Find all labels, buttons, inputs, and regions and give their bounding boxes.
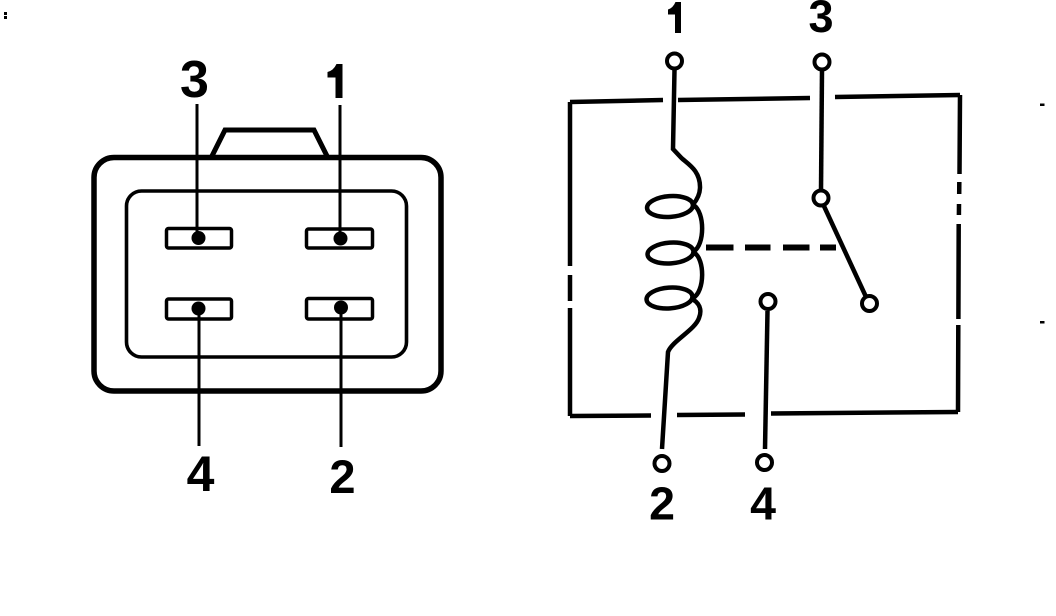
stray scan speck upper-left a [4,12,7,15]
stray scan dash right edge upper [1040,104,1045,107]
pin contact dot 4 [192,302,206,316]
wire leader pin 4 [198,308,201,446]
pin cavity 1 (top-right) [307,229,373,248]
svg-text:3: 3 [808,0,833,42]
terminal 3 circle [815,55,830,70]
wire leader pin 3 [196,104,199,238]
connector outer shell [94,158,441,392]
coil loop 2 [647,241,694,265]
svg-text:4: 4 [187,446,215,502]
dashed actuation line coil to switch arm [706,245,836,251]
relay box bottom edge [570,412,958,416]
terminal 1 circle [667,54,682,69]
wire terminal 4 [765,311,768,449]
pin cavity 4 (bottom-left) [167,299,232,319]
terminal 4 circle [757,455,772,470]
pin contact dot 2 [334,301,348,315]
terminal 4 stub circle [761,294,776,309]
relay box top edge [570,95,960,102]
stray scan dash right edge lower [1040,321,1045,324]
stray scan speck upper-left b [4,16,7,19]
svg-text:2: 2 [649,478,675,530]
wire leader pin 2 [340,308,343,447]
coil loop 3 [646,286,693,310]
coil bulge arc 2 [693,253,702,299]
svg-text:4: 4 [750,478,776,530]
pin label 1 (connector) [328,64,343,98]
pin cavity 3 (top-left) [167,229,232,249]
coil loop 1 [646,195,693,219]
wire terminal 3 to pivot [821,70,822,191]
terminal label 1 (relay) [668,2,681,33]
switch arm [823,204,867,299]
svg-text:3: 3 [180,51,209,109]
svg-text:2: 2 [329,450,355,503]
relay box right edge [958,95,960,412]
coil bulge arc 1 [694,205,703,252]
wire coil to terminal 2 [662,300,700,450]
connector inner shell [127,191,407,357]
switch pivot circle [814,191,829,206]
connector keying tab [211,130,328,158]
pin cavity 2 (bottom-right) [307,299,373,320]
pin contact dot 1 [334,232,348,246]
switch contact circle [862,296,877,311]
wire leader pin 1 [339,105,342,238]
pin contact dot 3 [192,231,206,245]
terminal 2 circle [655,456,670,471]
relay box left edge [568,102,573,416]
wire terminal 1 to coil [673,70,700,205]
